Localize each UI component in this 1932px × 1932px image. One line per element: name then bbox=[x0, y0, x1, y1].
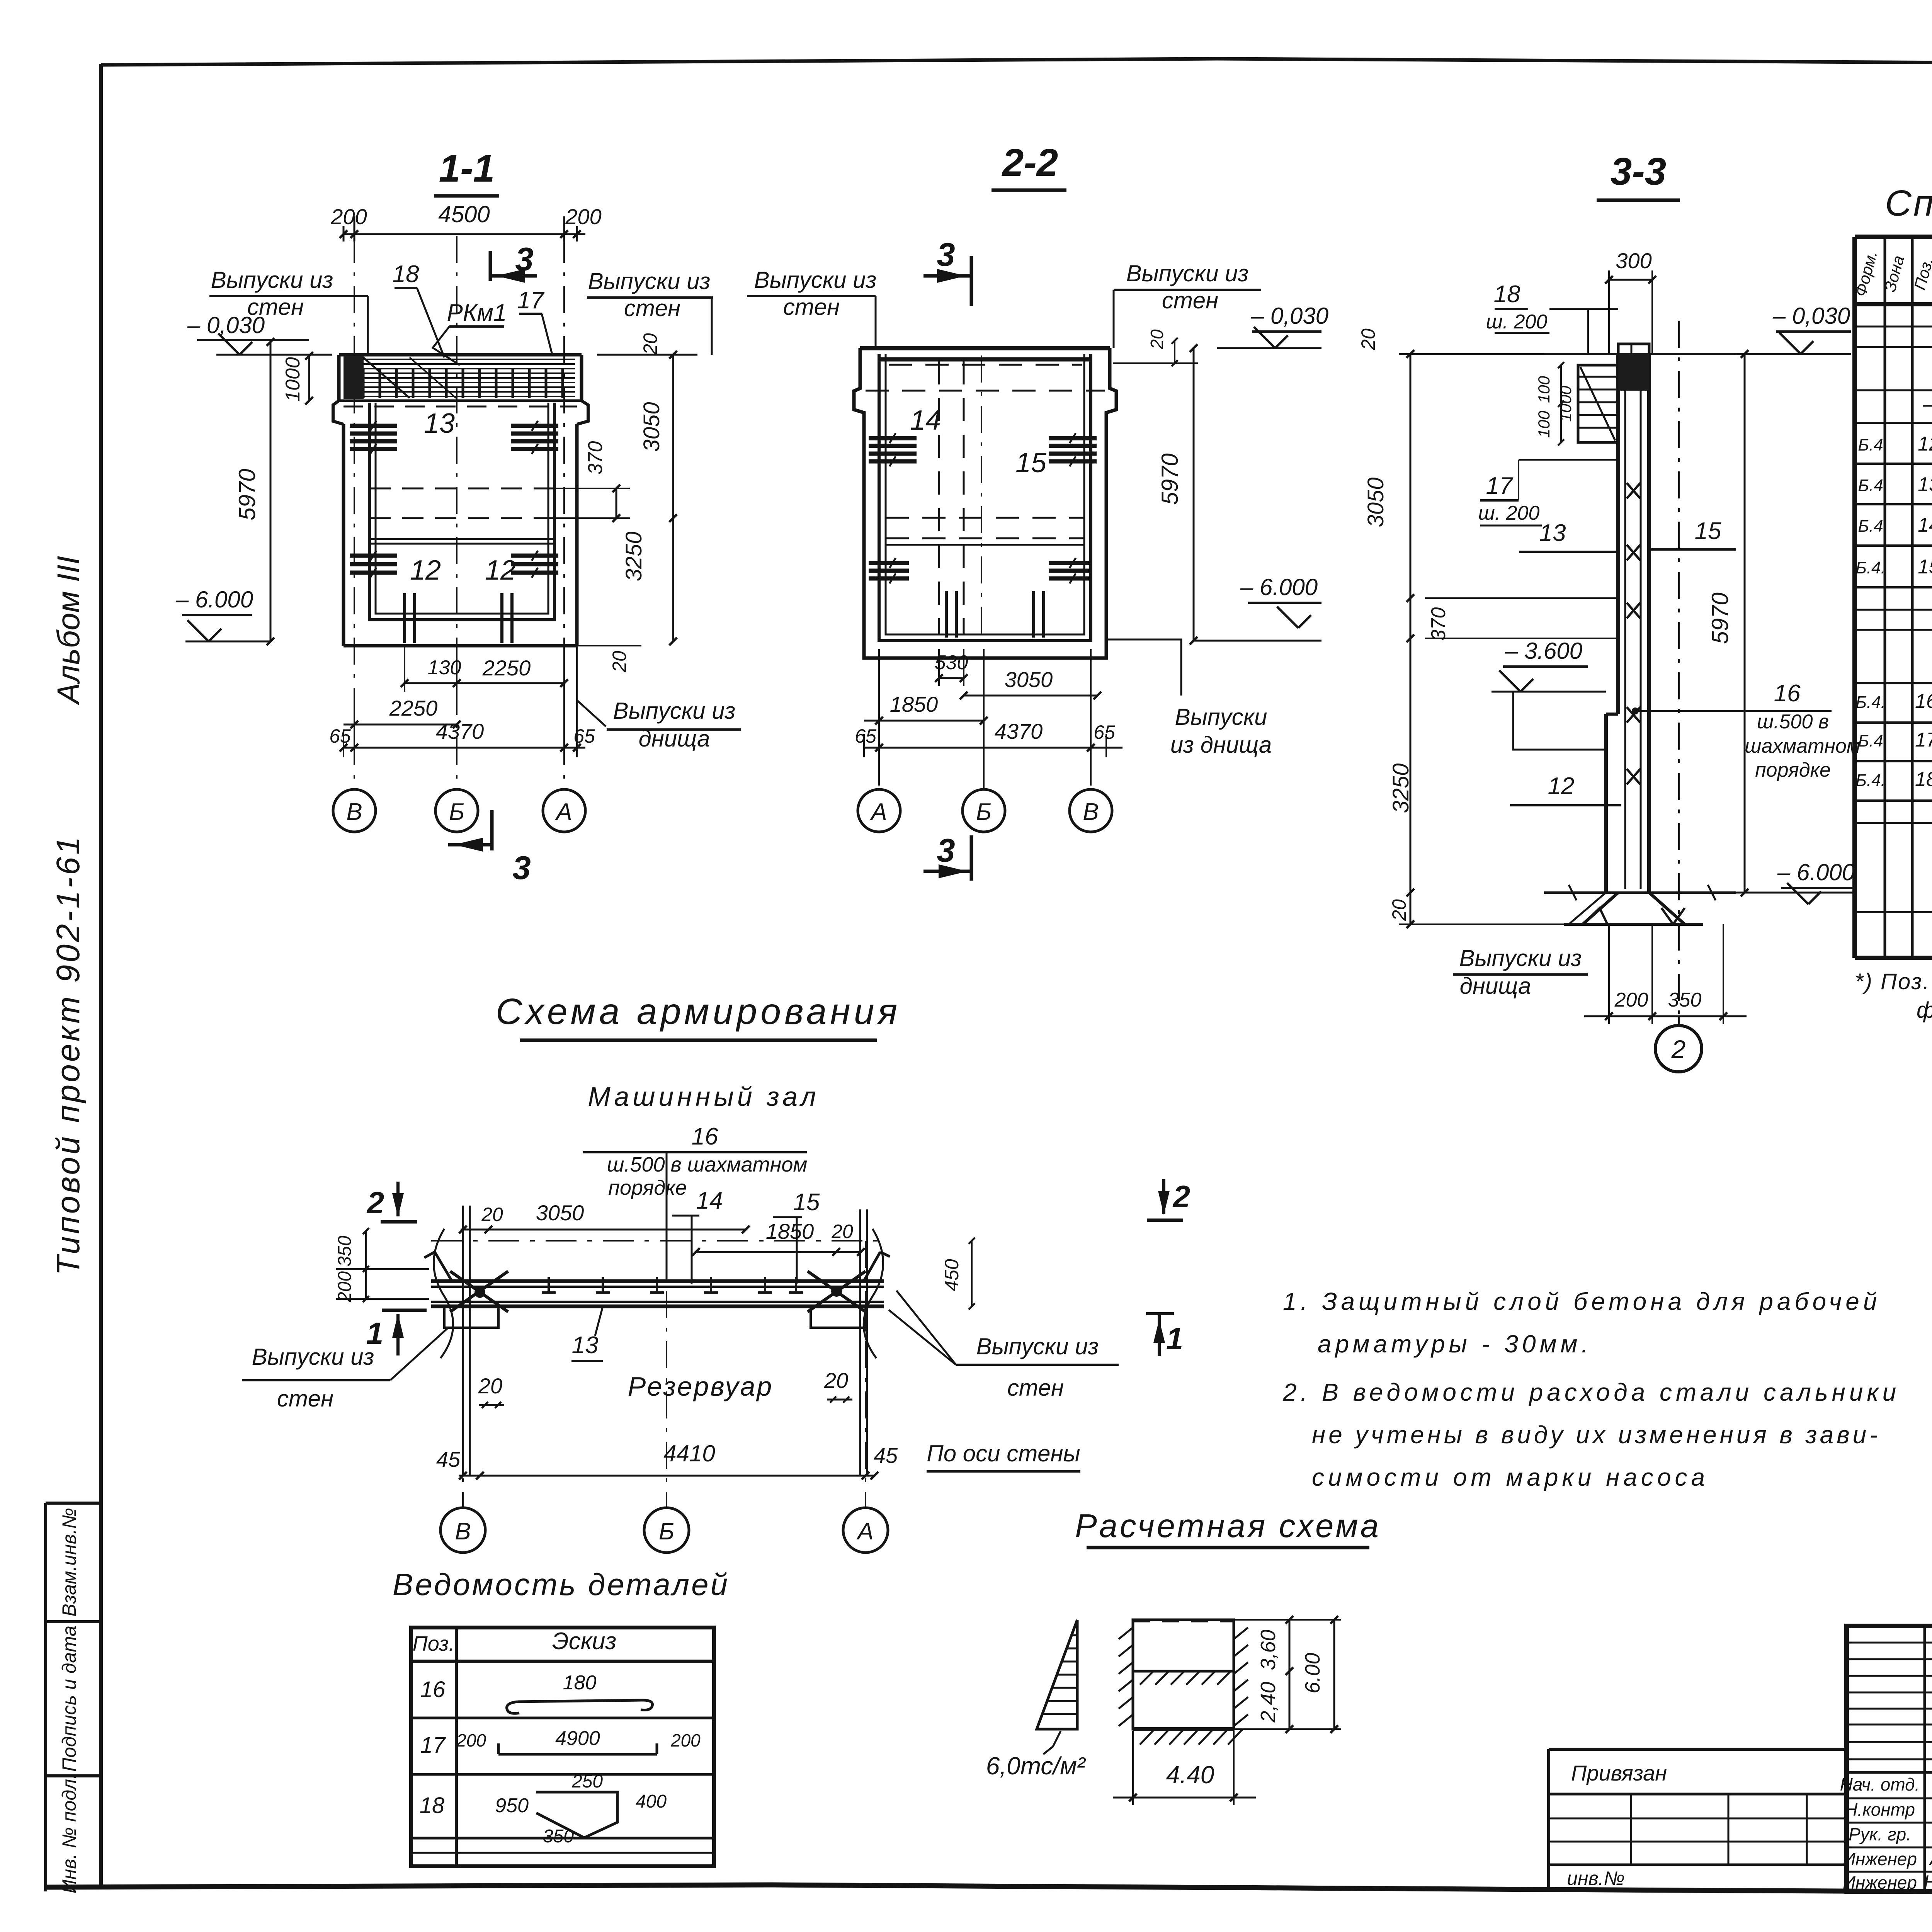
svg-text:По оси стены: По оси стены bbox=[927, 1440, 1080, 1466]
svg-text:20: 20 bbox=[824, 1368, 848, 1393]
svg-text:Альбом III: Альбом III bbox=[51, 556, 86, 706]
svg-text:14: 14 bbox=[696, 1187, 723, 1214]
svg-text:*) Поз. 16,17, 18 см. ведомос: *) Поз. 16,17, 18 см. ведомость деталей,… bbox=[1855, 969, 1932, 994]
svg-text:Выпуски из: Выпуски из bbox=[252, 1344, 374, 1370]
svg-text:5970: 5970 bbox=[234, 469, 260, 520]
svg-text:В: В bbox=[1083, 799, 1099, 825]
svg-text:Б: Б bbox=[976, 799, 992, 825]
svg-text:2,40: 2,40 bbox=[1257, 1682, 1280, 1723]
svg-text:– 3.600: – 3.600 bbox=[1505, 638, 1582, 664]
svg-text:3-3: 3-3 bbox=[1611, 150, 1667, 193]
svg-text:шахматном: шахматном bbox=[1745, 735, 1860, 757]
svg-text:Эскиз: Эскиз bbox=[552, 1628, 617, 1655]
svg-text:– 6.000: – 6.000 bbox=[175, 587, 253, 612]
svg-text:В: В bbox=[346, 799, 362, 825]
svg-text:–: – bbox=[1922, 392, 1932, 416]
svg-text:1: 1 bbox=[366, 1316, 384, 1350]
svg-text:Инженер: Инженер bbox=[1843, 1849, 1917, 1869]
svg-text:20: 20 bbox=[481, 1204, 503, 1225]
svg-text:1850: 1850 bbox=[890, 692, 938, 716]
svg-text:200: 200 bbox=[670, 1730, 701, 1750]
svg-text:20: 20 bbox=[478, 1374, 502, 1398]
svg-text:– 6.000: – 6.000 bbox=[1240, 574, 1318, 600]
svg-text:Никитенко: Никитенко bbox=[1923, 1871, 1932, 1893]
svg-text:200: 200 bbox=[330, 204, 367, 229]
svg-text:18: 18 bbox=[420, 1793, 445, 1818]
svg-text:20: 20 bbox=[639, 333, 661, 355]
svg-text:180: 180 bbox=[563, 1672, 597, 1694]
svg-text:4370: 4370 bbox=[436, 719, 484, 743]
svg-text:Выпуски: Выпуски bbox=[1175, 704, 1267, 730]
svg-text:2. В ведомости расхода стали: 2. В ведомости расхода стали сальники bbox=[1282, 1378, 1900, 1406]
svg-text:12: 12 bbox=[1918, 433, 1932, 455]
svg-text:350: 350 bbox=[543, 1826, 574, 1847]
svg-text:– 6.000: – 6.000 bbox=[1777, 859, 1855, 885]
svg-text:ш.500 в шахматном: ш.500 в шахматном bbox=[607, 1153, 808, 1176]
svg-text:Б.4.: Б.4. bbox=[1855, 693, 1886, 712]
svg-text:200: 200 bbox=[335, 1271, 355, 1303]
svg-text:1-1: 1-1 bbox=[439, 147, 495, 190]
svg-text:17: 17 bbox=[1486, 473, 1514, 499]
svg-text:300: 300 bbox=[1616, 248, 1651, 273]
svg-text:4900: 4900 bbox=[555, 1727, 600, 1750]
svg-text:Б.4.: Б.4. bbox=[1855, 771, 1886, 790]
svg-text:12: 12 bbox=[410, 555, 441, 586]
svg-text:450: 450 bbox=[941, 1259, 963, 1291]
svg-text:не учтены в виду их измене: не учтены в виду их изменения в зави- bbox=[1312, 1421, 1881, 1449]
svg-text:В: В bbox=[455, 1518, 471, 1545]
svg-text:6.00: 6.00 bbox=[1301, 1653, 1324, 1693]
svg-text:2: 2 bbox=[366, 1185, 384, 1220]
svg-text:18: 18 bbox=[393, 261, 419, 287]
svg-text:45: 45 bbox=[436, 1447, 461, 1471]
svg-text:15: 15 bbox=[1015, 447, 1047, 478]
svg-text:1. Защитный слой бетона для: 1. Защитный слой бетона для рабочей bbox=[1283, 1287, 1881, 1315]
svg-text:Выпуски из: Выпуски из bbox=[976, 1333, 1099, 1359]
svg-text:стен: стен bbox=[783, 294, 840, 320]
svg-text:5970: 5970 bbox=[1707, 592, 1733, 644]
svg-text:Подпись и дата: Подпись и дата bbox=[58, 1626, 80, 1772]
svg-text:Б.4: Б.4 bbox=[1858, 476, 1883, 495]
svg-text:Расчетная схема: Расчетная схема bbox=[1075, 1508, 1381, 1544]
svg-text:Выпуски из: Выпуски из bbox=[754, 267, 877, 293]
svg-text:13: 13 bbox=[424, 408, 455, 439]
svg-text:12: 12 bbox=[485, 555, 516, 586]
svg-text:16*: 16* bbox=[1915, 690, 1932, 713]
svg-text:Схема армирования: Схема армирования bbox=[496, 991, 901, 1032]
svg-text:Б.4.: Б.4. bbox=[1855, 558, 1886, 577]
svg-text:ш. 200: ш. 200 bbox=[1486, 311, 1548, 333]
svg-text:Б.4: Б.4 bbox=[1858, 517, 1883, 536]
svg-text:Машинный зал: Машинный зал bbox=[588, 1082, 819, 1112]
svg-text:20: 20 bbox=[1147, 329, 1167, 350]
svg-text:6,0тс/м²: 6,0тс/м² bbox=[986, 1752, 1086, 1780]
svg-text:350: 350 bbox=[1668, 989, 1702, 1011]
svg-text:Б: Б bbox=[449, 799, 464, 825]
svg-text:4410: 4410 bbox=[663, 1440, 715, 1466]
svg-text:Инв. № подл.: Инв. № подл. bbox=[58, 1774, 80, 1893]
svg-text:370: 370 bbox=[1427, 607, 1450, 641]
svg-text:5970: 5970 bbox=[1157, 453, 1183, 505]
svg-text:1: 1 bbox=[1166, 1321, 1184, 1356]
svg-text:арматуры - 30мм.: арматуры - 30мм. bbox=[1318, 1330, 1592, 1358]
svg-text:65: 65 bbox=[855, 725, 876, 747]
svg-text:Привязан: Привязан bbox=[1571, 1761, 1667, 1785]
svg-text:стен: стен bbox=[1162, 287, 1218, 313]
svg-text:130: 130 bbox=[428, 656, 461, 679]
svg-text:3050: 3050 bbox=[1363, 477, 1388, 527]
svg-text:45: 45 bbox=[874, 1443, 898, 1468]
svg-text:Выпуски из: Выпуски из bbox=[588, 268, 711, 294]
svg-text:3: 3 bbox=[515, 241, 533, 278]
svg-text:– 0,030: – 0,030 bbox=[187, 312, 265, 338]
svg-text:14: 14 bbox=[1918, 514, 1932, 536]
svg-text:Выпуски из: Выпуски из bbox=[211, 267, 333, 293]
svg-text:4370: 4370 bbox=[995, 719, 1043, 743]
svg-text:А: А bbox=[869, 799, 887, 825]
svg-text:530: 530 bbox=[935, 651, 968, 674]
svg-text:200: 200 bbox=[456, 1730, 486, 1750]
svg-text:симости от марки насоса: симости от марки насоса bbox=[1312, 1463, 1709, 1491]
svg-text:1000: 1000 bbox=[282, 357, 304, 402]
svg-text:370: 370 bbox=[584, 441, 607, 475]
svg-text:2250: 2250 bbox=[482, 656, 531, 680]
svg-text:3: 3 bbox=[937, 236, 955, 273]
svg-text:из днища: из днища bbox=[1170, 732, 1272, 758]
svg-text:1000: 1000 bbox=[1556, 386, 1575, 422]
svg-text:16: 16 bbox=[420, 1677, 446, 1702]
svg-text:днища: днища bbox=[1460, 973, 1531, 999]
svg-text:2-2: 2-2 bbox=[1002, 141, 1058, 184]
svg-text:20: 20 bbox=[831, 1221, 853, 1242]
svg-text:250: 250 bbox=[571, 1771, 603, 1792]
svg-text:20: 20 bbox=[1357, 328, 1379, 350]
svg-text:100: 100 bbox=[1535, 376, 1553, 403]
svg-text:Выпуски из: Выпуски из bbox=[1459, 945, 1582, 971]
svg-text:13: 13 bbox=[572, 1332, 599, 1359]
svg-text:17*: 17* bbox=[1915, 729, 1932, 751]
svg-text:17: 17 bbox=[517, 287, 545, 314]
svg-text:17: 17 bbox=[420, 1733, 446, 1758]
svg-text:13: 13 bbox=[1539, 520, 1566, 546]
svg-text:Выпуски из: Выпуски из bbox=[1126, 260, 1249, 286]
svg-text:200: 200 bbox=[565, 204, 601, 229]
svg-text:стен: стен bbox=[624, 295, 680, 321]
svg-text:Резервуар: Резервуар bbox=[628, 1371, 774, 1401]
svg-text:100: 100 bbox=[1535, 410, 1553, 438]
svg-text:Выпуски из: Выпуски из bbox=[613, 698, 736, 724]
svg-text:16: 16 bbox=[692, 1123, 718, 1150]
svg-text:14: 14 bbox=[910, 405, 941, 436]
svg-text:Ведомость деталей: Ведомость деталей bbox=[393, 1567, 730, 1602]
svg-text:фикацию исполнения.: фикацию исполнения. bbox=[1917, 998, 1932, 1023]
svg-text:ш.500 в: ш.500 в bbox=[1757, 711, 1829, 733]
svg-text:3050: 3050 bbox=[536, 1201, 584, 1225]
svg-text:200: 200 bbox=[1614, 989, 1648, 1011]
svg-text:Н.контр: Н.контр bbox=[1845, 1799, 1915, 1820]
svg-text:2250: 2250 bbox=[389, 696, 438, 720]
svg-text:Инженер: Инженер bbox=[1843, 1872, 1917, 1893]
svg-text:15: 15 bbox=[1918, 556, 1932, 578]
svg-text:4500: 4500 bbox=[438, 201, 490, 227]
svg-text:Б.4: Б.4 bbox=[1858, 731, 1883, 750]
svg-text:Типовой проект 902-1-61: Типовой проект 902-1-61 bbox=[50, 834, 86, 1276]
svg-text:350: 350 bbox=[335, 1236, 355, 1267]
svg-text:стен: стен bbox=[1007, 1375, 1064, 1401]
svg-text:А: А bbox=[856, 1518, 873, 1545]
svg-text:950: 950 bbox=[495, 1794, 529, 1817]
svg-text:Рук. гр.: Рук. гр. bbox=[1849, 1824, 1911, 1844]
svg-text:ш. 200: ш. 200 bbox=[1478, 502, 1540, 524]
svg-text:15: 15 bbox=[1695, 518, 1721, 544]
svg-text:20: 20 bbox=[1388, 899, 1410, 921]
svg-text:порядке: порядке bbox=[608, 1176, 687, 1199]
svg-text:3: 3 bbox=[512, 850, 531, 886]
svg-text:3050: 3050 bbox=[639, 402, 664, 452]
svg-text:65: 65 bbox=[1094, 721, 1115, 743]
svg-text:порядке: порядке bbox=[1755, 759, 1831, 781]
svg-text:20: 20 bbox=[609, 651, 630, 673]
svg-text:2: 2 bbox=[1671, 1035, 1686, 1063]
svg-text:13: 13 bbox=[1918, 473, 1932, 496]
svg-text:18: 18 bbox=[1494, 281, 1520, 308]
svg-text:3250: 3250 bbox=[621, 531, 646, 581]
svg-text:65: 65 bbox=[329, 725, 351, 747]
svg-text:4.40: 4.40 bbox=[1166, 1761, 1214, 1789]
svg-text:Поз.: Поз. bbox=[413, 1632, 455, 1655]
svg-text:1850: 1850 bbox=[766, 1219, 814, 1243]
svg-text:Б: Б bbox=[659, 1518, 674, 1545]
svg-text:400: 400 bbox=[636, 1791, 667, 1812]
svg-text:12: 12 bbox=[1548, 773, 1575, 799]
svg-text:А: А bbox=[554, 799, 572, 825]
svg-text:3: 3 bbox=[937, 832, 955, 869]
svg-text:Нач. отд.: Нач. отд. bbox=[1840, 1774, 1920, 1794]
svg-text:Спецификация к стене СТм2 .: Спецификация к стене СТм2 . bbox=[1885, 183, 1932, 224]
svg-text:– 0,030: – 0,030 bbox=[1772, 303, 1850, 329]
svg-text:3,60: 3,60 bbox=[1257, 1629, 1280, 1670]
svg-text:18*: 18* bbox=[1915, 768, 1932, 791]
svg-text:стен: стен bbox=[277, 1386, 333, 1412]
svg-text:15: 15 bbox=[793, 1189, 820, 1216]
svg-text:Взам.инв.№: Взам.инв.№ bbox=[58, 1508, 80, 1616]
svg-text:инв.№: инв.№ bbox=[1567, 1867, 1624, 1889]
svg-text:16: 16 bbox=[1774, 680, 1801, 707]
svg-text:– 0,030: – 0,030 bbox=[1251, 303, 1328, 329]
svg-text:2: 2 bbox=[1172, 1179, 1190, 1214]
svg-text:3050: 3050 bbox=[1005, 667, 1053, 692]
svg-text:Б.4: Б.4 bbox=[1858, 435, 1883, 454]
svg-text:РКм1: РКм1 bbox=[447, 299, 507, 326]
